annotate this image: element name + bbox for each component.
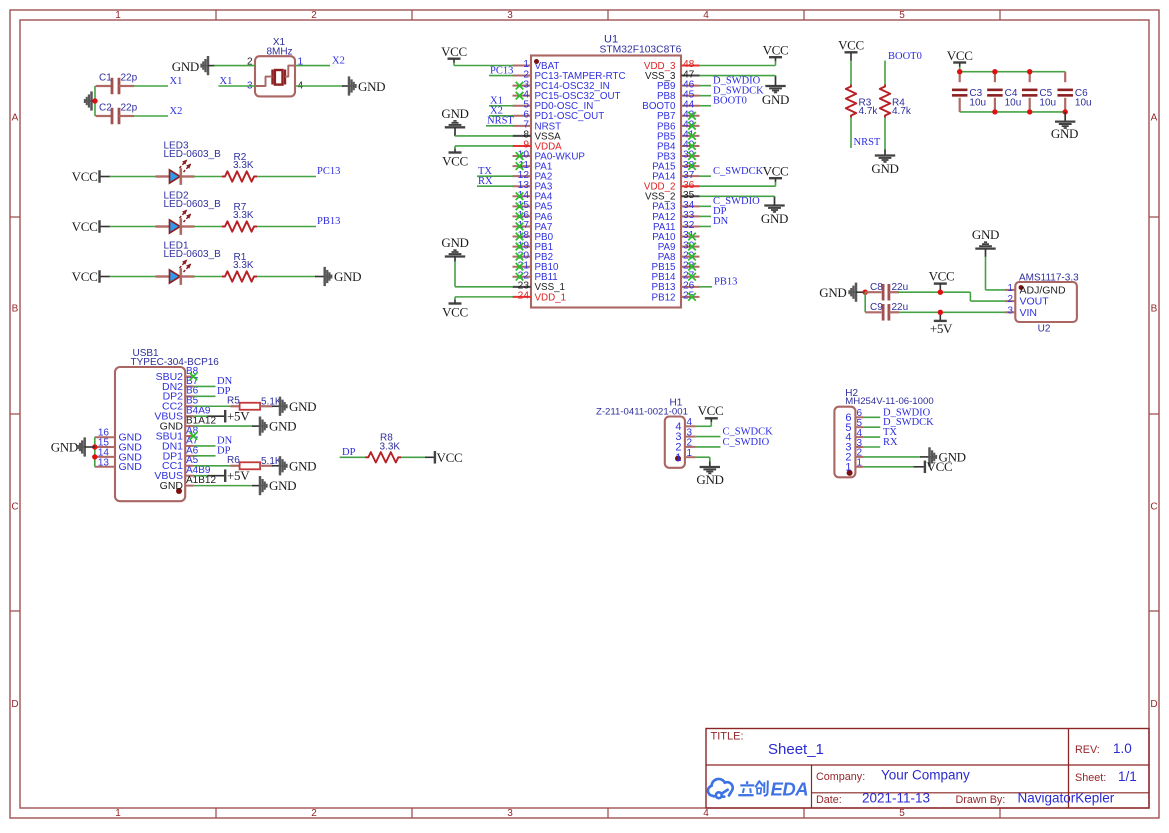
U1 pin 9 VDDA [513, 145, 532, 147]
USB1 pin A7 DN1 [185, 445, 193, 447]
svg-text:2: 2 [311, 808, 317, 819]
resistor R4 [880, 85, 890, 118]
svg-text:D: D [1150, 699, 1157, 710]
USB1 pin A1B12 GND [185, 485, 193, 487]
U1 pin 24 VDD_1 [513, 296, 532, 298]
svg-text:VCC: VCC [437, 450, 463, 465]
wire U2 pin 2 VOUT to VCC rail [970, 300, 1005, 302]
svg-text:22u: 22u [892, 302, 909, 313]
frame row letters left [11, 113, 18, 711]
wire USB1 CC to R5 [194, 405, 232, 407]
wire USB1 to net DN [194, 445, 216, 447]
svg-text:GND: GND [819, 285, 846, 300]
wire BOOT0 to R4 [884, 61, 886, 87]
wire R2 to net PC13 [257, 176, 316, 178]
U1 pin 42 PB6 [681, 125, 700, 127]
wire USB1 to net DP [194, 395, 216, 397]
svg-text:DP: DP [342, 447, 356, 458]
U1 pin 7 NRST [513, 125, 532, 127]
USB1 pin 16 GND [95, 436, 115, 438]
wire H2 pin 1 to VCC [863, 466, 914, 468]
wire U1 pin 45 [700, 95, 712, 97]
ground at LED1 row [315, 276, 325, 278]
wire VCC to R3 [850, 61, 852, 87]
U1 pin 46 PB9 [681, 85, 700, 87]
svg-text:22u: 22u [892, 282, 909, 293]
title block dividers [706, 764, 1149, 766]
U1 pin 33 PA12 [681, 215, 700, 217]
ground at capacitor bank [1064, 112, 1066, 122]
svg-text:4: 4 [703, 10, 709, 21]
svg-text:GND: GND [1051, 126, 1078, 141]
USB1 pin B6 DP2 [185, 395, 193, 397]
wire U1 pin 37 [700, 175, 712, 177]
svg-text:VCC: VCC [929, 269, 955, 284]
U1 pin 28 PB15 [681, 266, 700, 268]
H2 pin 5 [855, 426, 863, 428]
junction C8 ground [863, 290, 868, 295]
junction capacitor bank bottom [992, 109, 997, 114]
svg-text:C: C [11, 502, 18, 513]
svg-text:GND: GND [51, 440, 78, 455]
svg-text:GND: GND [269, 478, 296, 493]
svg-text:GND: GND [358, 79, 385, 94]
U2 pin 3 VIN [1005, 311, 1015, 313]
connector USB1 body [115, 367, 185, 501]
svg-text:3: 3 [507, 808, 513, 819]
svg-text:1: 1 [857, 458, 863, 469]
U1 pin 15 PA5 [513, 205, 532, 207]
svg-text:NavigatorKepler: NavigatorKepler [1018, 791, 1115, 806]
U1 pin 26 PB13 [681, 286, 700, 288]
wire C8 to VCC junction [898, 291, 970, 293]
svg-text:2: 2 [1008, 294, 1013, 305]
U1 pin 16 PA6 [513, 215, 532, 217]
junction +5V at C9 [938, 310, 943, 315]
H2 pin 6 [855, 416, 863, 418]
power flag +5V at USB1 [208, 415, 225, 417]
capacitor C3 [959, 72, 961, 83]
svg-text:C9: C9 [870, 302, 883, 313]
power flag +5V at C9 [939, 312, 941, 321]
wire LED2 to R7 [194, 226, 223, 228]
U1 pin 45 PB8 [681, 95, 700, 97]
junction C1/C2 ground [92, 98, 97, 103]
wire VCC to LED3 [110, 176, 157, 178]
wire crystal pin 4 to GND [296, 85, 344, 87]
U1 pin 35 VSS_2 [681, 195, 700, 197]
svg-text:VOUT: VOUT [1020, 296, 1050, 308]
wire H2 pin 4 [863, 436, 880, 438]
U1 pin 21 PB10 [513, 266, 532, 268]
svg-text:GND: GND [696, 472, 723, 487]
power flag VCC at H2 [914, 466, 924, 468]
svg-text:+5V: +5V [227, 408, 250, 423]
svg-text:X1: X1 [170, 76, 183, 87]
connector H2 pin-1 marker [847, 470, 853, 476]
USB1 pin A8 SBU1 [185, 435, 193, 437]
wire USB1 GND row [194, 485, 253, 487]
svg-text:VCC: VCC [763, 164, 789, 179]
svg-text:EDA: EDA [771, 778, 809, 799]
svg-text:VCC: VCC [72, 219, 98, 234]
resistor R2 [222, 171, 257, 181]
svg-text:D: D [11, 699, 18, 710]
svg-text:10u: 10u [1005, 98, 1022, 109]
svg-text:GND: GND [334, 269, 361, 284]
svg-text:A1B12: A1B12 [186, 475, 216, 486]
svg-text:GND: GND [119, 461, 143, 473]
ground at U1 pin 47 [765, 85, 785, 87]
wire crystal pin 1 to X2 [296, 65, 331, 67]
USB1 pin A5 CC1 [185, 465, 193, 467]
svg-text:Drawn By:: Drawn By: [956, 794, 1006, 806]
svg-text:3.3K: 3.3K [380, 442, 401, 453]
svg-text:VDD_1: VDD_1 [535, 292, 567, 303]
svg-text:1/1: 1/1 [1118, 769, 1137, 784]
svg-text:Your Company: Your Company [881, 768, 970, 783]
svg-text:VCC: VCC [441, 44, 467, 59]
svg-text:3: 3 [507, 10, 513, 21]
wire U1 pin 26 [700, 286, 713, 288]
svg-text:GND: GND [172, 59, 199, 74]
wire C1 to X1 label [134, 85, 169, 87]
wire USB1 VBUS to +5V [194, 475, 209, 477]
U1 pin 14 PA4 [513, 195, 532, 197]
wire U1 pin 35 to GND [700, 195, 775, 197]
no-connect USB1 A8 [190, 432, 198, 440]
U1 pin 36 VDD_2 [681, 185, 700, 187]
svg-text:VCC: VCC [72, 269, 98, 284]
ground at crystal pin 4 [342, 85, 349, 87]
svg-text:3.3K: 3.3K [233, 210, 254, 221]
wire NRST to U1 pin 7 [486, 125, 513, 127]
U1 pin 32 PA11 [681, 225, 700, 227]
wire R7 to net PB13 [257, 226, 316, 228]
svg-text:4.7k: 4.7k [859, 106, 879, 117]
wire R8 to VCC [401, 456, 425, 458]
wire RX to U1 pin 13 [477, 185, 513, 187]
svg-text:24: 24 [518, 291, 530, 302]
junction capacitor bank top [957, 69, 962, 74]
svg-text:GND: GND [289, 399, 316, 414]
svg-text:RX: RX [478, 176, 493, 187]
wire H2 pin 6 [863, 416, 880, 418]
svg-text:A: A [12, 113, 19, 124]
svg-text:22p: 22p [121, 73, 138, 84]
svg-text:PC13: PC13 [490, 65, 513, 76]
svg-text:VCC: VCC [72, 169, 98, 184]
IC U2 pin-1 marker [1019, 285, 1024, 290]
wire R4 to GND [884, 118, 886, 151]
USB1 pin 15 GND [95, 446, 115, 448]
svg-text:C1: C1 [99, 73, 112, 84]
wire C8 to C9 vertical [864, 292, 866, 312]
svg-text:4.7k: 4.7k [892, 106, 912, 117]
svg-text:MH254V-11-06-1000: MH254V-11-06-1000 [845, 396, 933, 407]
frame row letters right [1150, 113, 1157, 711]
svg-text:Company:: Company: [816, 771, 865, 783]
USB1 pin B4A9 VBUS [185, 415, 193, 417]
svg-text:NRST: NRST [854, 137, 881, 148]
svg-text:Sheet:: Sheet: [1075, 772, 1106, 784]
wire USB1 to net DP [194, 455, 216, 457]
resistor R6 (box) [230, 465, 239, 467]
H1 pin 4 [685, 425, 696, 427]
wire X2 to U1 pin 6 [489, 115, 513, 117]
wire U1 pin 34 [700, 205, 712, 207]
H1 pin 3 [685, 436, 696, 438]
USB1 pin 13 GND [95, 466, 115, 468]
USB1 pin A4B9 VBUS [185, 475, 193, 477]
ground symbol at C1/C2 [90, 91, 93, 110]
ground at U1 pin 35 [764, 204, 784, 206]
svg-text:3.3K: 3.3K [233, 260, 254, 271]
title block outline [706, 729, 1149, 809]
wire LED1 to R1 [194, 276, 223, 278]
svg-text:1: 1 [115, 10, 121, 21]
connector H1 pin-1 marker [675, 456, 681, 462]
svg-text:1: 1 [687, 448, 693, 459]
wire X1 net vertical at C1/C2 left [94, 86, 96, 116]
ground at R6 [272, 465, 280, 467]
U1 pin 27 PB14 [681, 276, 700, 278]
svg-text:GND: GND [160, 480, 184, 492]
svg-text:C8: C8 [870, 282, 883, 293]
wire GND to U1 pin 8 [455, 135, 513, 137]
svg-text:A: A [1151, 113, 1158, 124]
capacitor C1 [96, 85, 113, 87]
USB1 pin A6 DP1 [185, 455, 193, 457]
wire GND rail capacitor bank bottom [960, 111, 1065, 113]
svg-text:10u: 10u [1039, 98, 1056, 109]
wire VCC rail capacitor bank top [960, 71, 1065, 73]
ground at USB1 right [252, 425, 260, 427]
svg-text:C_SWDIO: C_SWDIO [723, 437, 770, 448]
svg-text:GND: GND [441, 106, 468, 121]
svg-text:LED-0603_B: LED-0603_B [164, 149, 222, 160]
U1 pin 40 PB4 [681, 145, 700, 147]
svg-text:PB12: PB12 [652, 292, 676, 303]
U1 pin 13 PA3 [513, 185, 532, 187]
U1 pin 2 PC13-TAMPER-RTC [513, 75, 532, 77]
capacitor C9 [865, 311, 881, 313]
U1 pin 19 PB1 [513, 246, 532, 248]
svg-text:ADJ/GND: ADJ/GND [1020, 285, 1067, 297]
svg-text:5: 5 [899, 10, 905, 21]
svg-text:PB13: PB13 [714, 277, 737, 288]
IC U2 body [1015, 282, 1077, 322]
U1 pin 25 PB12 [681, 296, 700, 298]
resistor R5 (box) [230, 405, 239, 407]
svg-text:5: 5 [899, 808, 905, 819]
U1 pin 38 PA15 [681, 165, 700, 167]
svg-text:2: 2 [311, 10, 317, 21]
svg-text:X2: X2 [332, 56, 345, 67]
wire USB1 GND row [194, 425, 253, 427]
svg-text:B: B [1151, 304, 1158, 315]
USB1 pin B1A12 GND [185, 425, 193, 427]
U1 pin 12 PA2 [513, 175, 532, 177]
U2 pin 1 ADJ/GND [1005, 289, 1015, 291]
ground at H1 [709, 462, 711, 468]
svg-text:VCC: VCC [442, 154, 468, 169]
svg-text:R6: R6 [227, 455, 240, 466]
U1 pin 43 PB7 [681, 115, 700, 117]
svg-text:GND: GND [761, 211, 788, 226]
connector USB1 pin-1 marker [176, 488, 182, 494]
U1 pin 23 VSS_1 [513, 286, 532, 288]
resistor R8 [365, 452, 401, 462]
H1 pin 1 [685, 456, 696, 458]
svg-text:GND: GND [289, 458, 316, 473]
wire VCC to U1 pin 24 [454, 297, 456, 300]
IC U1 body [531, 56, 681, 308]
wire H2 pin 2 to GND [863, 456, 920, 458]
svg-text:LED-0603_B: LED-0603_B [164, 249, 222, 260]
svg-text:GND: GND [762, 92, 789, 107]
LED LED3 [156, 175, 170, 177]
resistor R7 [222, 221, 257, 231]
wire TX to U1 pin 12 [477, 175, 513, 177]
svg-text:R5: R5 [227, 395, 240, 406]
ground at R4 [884, 150, 886, 156]
wire C2 to X2 label [134, 115, 169, 117]
wire X1 to crystal pin 3 [219, 85, 256, 87]
wire H1 pin 2 [696, 446, 721, 448]
ground at H2 [920, 456, 930, 458]
junction USB1 pin 14 [92, 454, 97, 459]
U1 pin 30 PA9 [681, 246, 700, 248]
U1 pin 22 PB11 [513, 276, 532, 278]
svg-text:VCC: VCC [442, 305, 468, 320]
svg-text:GND: GND [441, 235, 468, 250]
EasyEDA logo cloud [708, 779, 733, 798]
wire PC13 to U1 pin 2 [489, 75, 513, 77]
svg-text:B: B [12, 304, 19, 315]
H1 pin 2 [685, 446, 696, 448]
svg-text:VCC: VCC [947, 48, 973, 63]
wire U2 pin 3 VIN to +5V rail [891, 311, 1005, 313]
wire H2 pin 3 [863, 446, 880, 448]
H2 pin 3 [855, 446, 863, 448]
U1 pin 47 VSS_3 [681, 75, 700, 77]
wire DP to R8 [340, 456, 366, 458]
USB1 pin B7 DN2 [185, 385, 193, 387]
U1 pin 37 PA14 [681, 175, 700, 177]
svg-text:GND: GND [871, 161, 898, 176]
U1 pin 18 PB0 [513, 236, 532, 238]
USB1 pin B8 SBU2 [185, 376, 193, 378]
frame column numbers top [115, 10, 905, 21]
U1 pin 48 VDD_3 [681, 65, 700, 67]
wire H1 pin 3 [696, 436, 721, 438]
wire GND to U1 pin 23 [454, 261, 456, 287]
wire U1 pin 48 to VCC [700, 65, 776, 67]
svg-text:4: 4 [703, 808, 709, 819]
svg-text:BOOT0: BOOT0 [713, 95, 747, 106]
resistor R3 [846, 85, 856, 118]
H2 pin 4 [855, 436, 863, 438]
svg-text:BOOT0: BOOT0 [888, 51, 922, 62]
svg-text:NRST: NRST [487, 116, 514, 127]
svg-text:22p: 22p [121, 103, 138, 114]
no-connect USB1 B8 [190, 373, 198, 381]
svg-text:10u: 10u [1075, 98, 1092, 109]
svg-text:LED-0603_B: LED-0603_B [164, 199, 222, 210]
svg-text:X2: X2 [170, 106, 183, 117]
svg-text:Sheet_1: Sheet_1 [768, 741, 824, 758]
LED LED1 [156, 275, 170, 277]
svg-text:10u: 10u [969, 98, 986, 109]
USB1 pin B5 CC2 [185, 405, 193, 407]
svg-text:+5V: +5V [227, 468, 250, 483]
svg-text:3: 3 [1008, 305, 1014, 316]
svg-text:1: 1 [845, 461, 851, 473]
svg-text:1: 1 [1008, 283, 1013, 294]
wire H2 pin 5 [863, 426, 880, 428]
capacitor C8 [865, 291, 881, 293]
wire X1 to U1 pin 5 [489, 105, 513, 107]
junction VCC at C8 [938, 290, 943, 295]
U1 pin 41 PB5 [681, 135, 700, 137]
wire R1 to GND [257, 276, 316, 278]
svg-text:C: C [1150, 502, 1157, 513]
svg-text:1.0: 1.0 [1113, 741, 1132, 756]
svg-text:2021-11-13: 2021-11-13 [862, 791, 930, 806]
svg-text:REV:: REV: [1075, 744, 1100, 756]
U1 pin 10 PA0-WKUP [513, 155, 532, 157]
wire USB1 VBUS to +5V [194, 415, 209, 417]
wire GND to crystal pin 2 [214, 65, 255, 67]
svg-text:GND: GND [269, 419, 296, 434]
U1 pin 3 PC14-OSC32_IN [513, 85, 532, 87]
wire LED3 to R2 [194, 176, 223, 178]
U1 pin 29 PA8 [681, 256, 700, 258]
capacitor C5 [1029, 72, 1031, 83]
svg-text:RX: RX [883, 437, 898, 448]
power flag VCC at R8 [425, 456, 434, 458]
U1 pin 39 PB3 [681, 155, 700, 157]
svg-text:GND: GND [972, 227, 999, 242]
capacitor C4 [994, 72, 996, 83]
power flag VCC at U1 pin 24 [449, 302, 462, 304]
svg-text:C2: C2 [99, 103, 112, 114]
wire U1 pin 47 to GND [700, 75, 776, 77]
svg-text:TITLE:: TITLE: [711, 731, 744, 743]
wire U1 pin 36 to VCC [700, 185, 776, 187]
capacitor C2 [96, 115, 113, 117]
svg-text:1: 1 [675, 452, 681, 464]
frame column numbers bottom [115, 808, 905, 819]
svg-text:VIN: VIN [1020, 307, 1038, 319]
connector H1 body [665, 417, 685, 468]
svg-text:+5V: +5V [930, 321, 953, 336]
U1 pin 5 PD0-OSC_IN [513, 105, 532, 107]
wire U1 pin 32 [700, 225, 712, 227]
svg-text:U2: U2 [1038, 324, 1051, 335]
wire USB1 CC to R6 [194, 465, 232, 467]
junction USB1 pin 15 [92, 444, 97, 449]
svg-text:13: 13 [98, 457, 110, 468]
svg-text:3.3K: 3.3K [233, 160, 254, 171]
svg-text:VCC: VCC [927, 459, 953, 474]
wire H1 pin 4 to VCC [696, 425, 712, 427]
power flag VCC at U1 pin 9 [449, 151, 462, 153]
wire VCC to U1 pin 1 [453, 63, 455, 66]
power flag VCC at H1 [705, 417, 718, 419]
svg-text:VCC: VCC [838, 38, 864, 53]
